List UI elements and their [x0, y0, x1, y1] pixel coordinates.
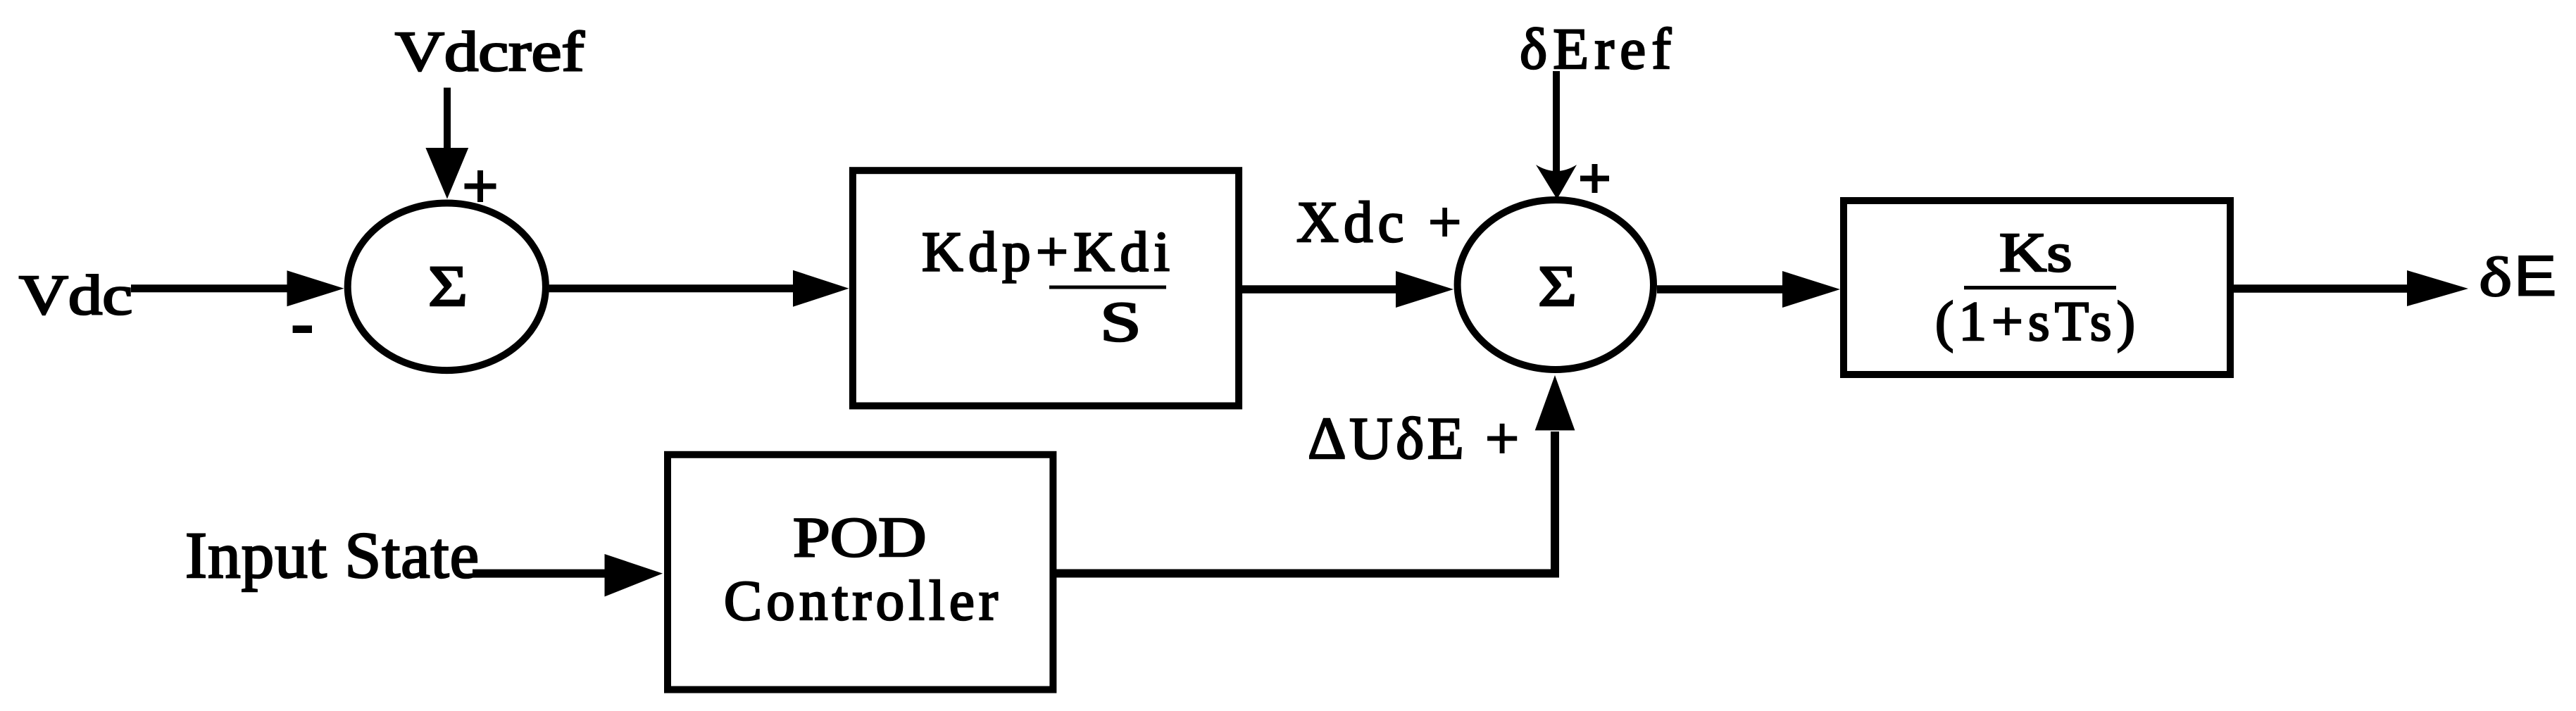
svg-text:Vdc: Vdc	[19, 265, 132, 327]
svg-text:Input State: Input State	[185, 520, 479, 592]
svg-text:Vdcref: Vdcref	[395, 21, 584, 83]
svg-text:δ: δ	[2479, 246, 2512, 308]
svg-text:Σ: Σ	[428, 254, 468, 318]
svg-text:Ks: Ks	[1999, 222, 2072, 284]
svg-text:POD: POD	[793, 505, 927, 569]
svg-text:Kdp+Kdi: Kdp+Kdi	[922, 220, 1170, 284]
svg-text:(1+sTs): (1+sTs)	[1935, 291, 2135, 353]
svg-text:ΔUδE +: ΔUδE +	[1308, 405, 1519, 472]
svg-text:Xdc +: Xdc +	[1296, 189, 1461, 254]
svg-text:Σ: Σ	[1538, 254, 1577, 318]
svg-text:E: E	[2514, 244, 2556, 308]
svg-text:S: S	[1100, 291, 1142, 353]
